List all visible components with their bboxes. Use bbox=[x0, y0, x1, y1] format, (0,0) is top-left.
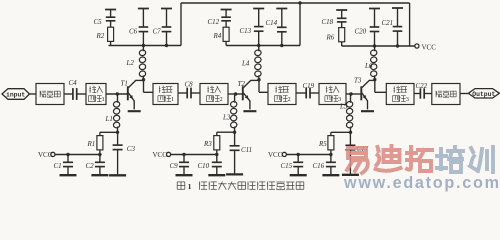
capacitor C10 bbox=[208, 155, 225, 176]
label C20 bbox=[355, 27, 367, 35]
capacitor C22 bbox=[414, 88, 432, 98]
transistor T2 bbox=[243, 80, 259, 109]
label R2 bbox=[96, 32, 105, 40]
svg-text:C22: C22 bbox=[416, 82, 428, 90]
label L2 bbox=[126, 59, 135, 67]
svg-text:L3: L3 bbox=[222, 114, 231, 122]
svg-text:C2: C2 bbox=[86, 162, 95, 170]
label C4 bbox=[69, 79, 78, 87]
label C9 bbox=[170, 162, 179, 170]
label T1 bbox=[121, 79, 128, 87]
label C3 bbox=[127, 145, 136, 153]
capacitor C11 bbox=[226, 132, 243, 174]
svg-text:C6: C6 bbox=[129, 28, 138, 36]
capacitor C5 bbox=[105, 10, 116, 28]
caption (figure 1 title) bbox=[177, 182, 304, 192]
svg-text:input: input bbox=[6, 91, 25, 98]
svg-text:VCC: VCC bbox=[268, 151, 283, 159]
watermark url www.edatop.com bbox=[343, 174, 499, 192]
svg-text:T3: T3 bbox=[354, 76, 362, 84]
label C17 bbox=[357, 145, 369, 153]
label L5 bbox=[339, 102, 348, 110]
block input-match 2 bbox=[200, 84, 228, 105]
node bbox=[233, 131, 236, 134]
inductor L3 bbox=[230, 94, 237, 132]
label T2 bbox=[238, 80, 246, 88]
wire (bias bus B) bbox=[171, 154, 217, 156]
capacitor C7 bbox=[161, 9, 172, 46]
wire (collector to match) bbox=[375, 80, 387, 93]
svg-text:C8: C8 bbox=[185, 80, 194, 88]
node (C20/bus) bbox=[373, 44, 376, 47]
watermark logo text (yi-di-tuo-pei-xun) bbox=[347, 146, 493, 173]
label C14 bbox=[266, 19, 278, 27]
label C12 bbox=[208, 18, 220, 26]
wire (bias bus 3) bbox=[342, 45, 415, 47]
svg-text:2: 2 bbox=[288, 96, 291, 103]
node bbox=[182, 153, 185, 156]
capacitor C3 bbox=[109, 132, 126, 175]
capacitor C9 bbox=[176, 155, 193, 176]
svg-text:C13: C13 bbox=[240, 27, 252, 35]
port Output bbox=[468, 89, 499, 98]
label C18 bbox=[322, 18, 334, 26]
block output-match 1 bbox=[153, 84, 178, 105]
terminal VCC (bottom right) bbox=[268, 151, 286, 159]
label C1 bbox=[54, 162, 62, 170]
transistor T3 bbox=[361, 80, 375, 109]
svg-text:3: 3 bbox=[406, 96, 409, 103]
label C2 bbox=[86, 162, 95, 170]
wire bbox=[64, 93, 71, 95]
capacitor C12 bbox=[221, 10, 232, 28]
svg-text:1: 1 bbox=[102, 96, 105, 103]
wire (collector to match) bbox=[144, 80, 154, 92]
capacitor C19 bbox=[296, 88, 319, 99]
label C19 bbox=[303, 82, 315, 90]
terminal VCC (bottom middle) bbox=[153, 151, 171, 159]
wire (to T2 base) bbox=[228, 93, 243, 95]
label R6 bbox=[326, 33, 335, 41]
capacitor C20 bbox=[369, 9, 380, 47]
svg-text:C21: C21 bbox=[382, 19, 394, 27]
node (C14/bus) bbox=[280, 44, 283, 47]
block input-match 3 bbox=[319, 84, 346, 105]
label R3 bbox=[203, 140, 212, 148]
wire (to T3 base) bbox=[346, 93, 361, 95]
svg-text:L2: L2 bbox=[126, 59, 135, 67]
resistor R2 bbox=[108, 27, 114, 45]
node bbox=[66, 153, 69, 156]
node (C21/bus) bbox=[396, 44, 399, 47]
capacitor C14 bbox=[276, 9, 287, 46]
svg-text:C20: C20 bbox=[355, 27, 367, 35]
svg-text:1: 1 bbox=[188, 182, 192, 191]
node bbox=[349, 131, 352, 134]
label C11 bbox=[241, 146, 252, 154]
inductor L6 bbox=[370, 46, 377, 80]
label C22 bbox=[416, 82, 428, 90]
svg-text:C14: C14 bbox=[266, 19, 278, 27]
svg-text:2: 2 bbox=[220, 96, 223, 103]
svg-text:T2: T2 bbox=[238, 80, 246, 88]
node bbox=[349, 92, 352, 95]
node bbox=[215, 153, 218, 156]
svg-text:VCC: VCC bbox=[422, 43, 437, 51]
capacitor C1 bbox=[60, 155, 77, 176]
svg-text:C5: C5 bbox=[94, 18, 103, 26]
wire (VCC top rail) bbox=[181, 3, 410, 46]
block input-match 1 bbox=[86, 84, 106, 105]
svg-text:R4: R4 bbox=[213, 32, 222, 40]
inductor L4 bbox=[254, 46, 261, 80]
transistor T1 bbox=[128, 80, 144, 109]
node (T1 collector) bbox=[142, 78, 145, 81]
inductor L5 bbox=[346, 94, 353, 132]
node bbox=[116, 131, 119, 134]
resistor R4 bbox=[223, 27, 229, 45]
svg-text:C7: C7 bbox=[153, 28, 162, 36]
svg-text:C12: C12 bbox=[208, 18, 220, 26]
label L4 bbox=[241, 59, 250, 67]
terminal VCC (bottom left) bbox=[38, 151, 55, 159]
resistor R3 bbox=[214, 132, 220, 154]
label C16 bbox=[313, 162, 325, 170]
node (T3 collector) bbox=[373, 78, 376, 81]
capacitor C15 bbox=[290, 155, 307, 176]
svg-text:R6: R6 bbox=[326, 33, 335, 41]
label C15 bbox=[281, 162, 293, 170]
svg-text:L4: L4 bbox=[241, 59, 250, 67]
node (T2 collector) bbox=[257, 78, 260, 81]
node (C6/bus) bbox=[142, 44, 145, 47]
inductor L2 bbox=[139, 46, 146, 80]
label T3 bbox=[354, 76, 362, 84]
svg-text:C3: C3 bbox=[127, 145, 136, 153]
inductor L1 bbox=[113, 94, 120, 132]
label R4 bbox=[213, 32, 222, 40]
svg-text:C16: C16 bbox=[313, 162, 325, 170]
label C8 bbox=[185, 80, 194, 88]
ground (emitter of T1) bbox=[128, 110, 141, 112]
capacitor C13 bbox=[253, 9, 264, 46]
svg-text:C4: C4 bbox=[69, 79, 78, 87]
capacitor C18 bbox=[336, 10, 347, 28]
svg-text:R3: R3 bbox=[203, 140, 212, 148]
block output-match 3 bbox=[386, 84, 414, 105]
svg-text:1: 1 bbox=[171, 96, 174, 103]
capacitor C21 bbox=[392, 8, 403, 46]
label R1 bbox=[87, 140, 96, 148]
node (rail junction) bbox=[298, 1, 301, 4]
terminal VCC (top right) bbox=[415, 43, 436, 51]
svg-text:C1: C1 bbox=[54, 162, 62, 170]
wire (to T1 base) bbox=[106, 93, 128, 95]
label C7 bbox=[153, 28, 162, 36]
svg-text:L1: L1 bbox=[105, 115, 113, 123]
node bbox=[234, 92, 237, 95]
wire bbox=[460, 93, 468, 95]
svg-text:C11: C11 bbox=[241, 146, 252, 154]
svg-text:R2: R2 bbox=[96, 32, 105, 40]
svg-text:C19: C19 bbox=[303, 82, 315, 90]
capacitor C2 bbox=[91, 155, 108, 176]
ground (emitter of T3) bbox=[361, 110, 374, 112]
capacitor C4 bbox=[71, 88, 86, 100]
svg-text:L5: L5 bbox=[339, 102, 348, 110]
wire (R1 to L1/C3) bbox=[100, 131, 118, 133]
wire (bias bus 1) bbox=[109, 45, 182, 47]
node bbox=[297, 153, 300, 156]
label C13 bbox=[240, 27, 252, 35]
port input bbox=[2, 89, 30, 100]
block isolator 1 (ge-li-qi) bbox=[36, 84, 64, 105]
svg-text:R5: R5 bbox=[318, 140, 327, 148]
node (C13/bus) bbox=[257, 44, 260, 47]
resistor R5 bbox=[328, 132, 334, 154]
label C21 bbox=[382, 19, 394, 27]
wire bbox=[30, 93, 37, 95]
capacitor C6 bbox=[138, 9, 149, 46]
svg-text:C18: C18 bbox=[322, 18, 334, 26]
label L1 bbox=[105, 115, 113, 123]
label L3 bbox=[222, 114, 231, 122]
label C6 bbox=[129, 28, 138, 36]
svg-text:R1: R1 bbox=[87, 140, 96, 148]
svg-text:C10: C10 bbox=[198, 162, 210, 170]
wire (R3 to L3/C11) bbox=[217, 131, 235, 133]
node bbox=[329, 153, 332, 156]
capacitor C8 bbox=[178, 88, 200, 99]
svg-text:T1: T1 bbox=[121, 79, 128, 87]
label R5 bbox=[318, 140, 327, 148]
svg-text:Output: Output bbox=[472, 91, 495, 98]
wire (bias bus C) bbox=[286, 154, 331, 156]
capacitor C16 bbox=[322, 155, 339, 176]
wire (R5 to L5/C17) bbox=[331, 131, 351, 133]
wire (bias bus A) bbox=[55, 154, 100, 156]
node bbox=[116, 92, 119, 95]
svg-text:www.edatop.com: www.edatop.com bbox=[343, 174, 499, 192]
wire (bias bus 2) bbox=[226, 45, 300, 47]
resistor R1 bbox=[97, 132, 103, 154]
label L6 bbox=[364, 62, 373, 70]
block isolator 2 (ge-li-qi) bbox=[432, 84, 460, 105]
wire (collector to match) bbox=[259, 80, 268, 92]
resistor R6 bbox=[339, 28, 345, 46]
block output-match 2 bbox=[268, 84, 296, 105]
svg-text:L6: L6 bbox=[364, 62, 373, 70]
ground (emitter of T2) bbox=[243, 110, 256, 112]
svg-text:C15: C15 bbox=[281, 162, 293, 170]
capacitor C17 bbox=[342, 132, 359, 175]
svg-text:C9: C9 bbox=[170, 162, 179, 170]
svg-text:VCC: VCC bbox=[153, 151, 168, 159]
node (C7/bus) bbox=[165, 44, 168, 47]
label C5 bbox=[94, 18, 103, 26]
label C10 bbox=[198, 162, 210, 170]
node bbox=[98, 153, 101, 156]
